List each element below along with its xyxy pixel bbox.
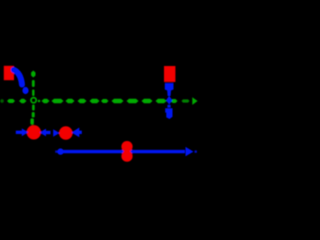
pole marker: right red square	[164, 66, 175, 82]
arrow: blue curved displacement arrow from left pole toward axis	[14, 70, 22, 85]
arrow: blue lower dash below axis	[167, 105, 170, 108]
arrow: blue lower block (shaft end)	[165, 108, 172, 119]
wire: real-axis dashed green contour	[0, 99, 190, 103]
arrow: blue down-arrow below right pole (head block tapering toward axis)	[165, 83, 174, 96]
node: axis arrowhead (right end of real axis)	[192, 97, 197, 105]
pinch group 1: right blue arrow pointing left	[45, 131, 51, 134]
pinched pole pair: red figure-eight on bottom contour	[121, 141, 132, 152]
pinch group 2: red pole blob	[59, 126, 73, 140]
wire: bottom blue contour line with right arrowhead	[57, 148, 63, 154]
pinch group 2: left blue arrow pointing right	[53, 129, 59, 137]
pinch group 2: right blue arrow pointing left	[78, 131, 82, 134]
pole marker: left red square	[4, 66, 14, 80]
pinch group 1: red pole blob	[27, 125, 41, 139]
node: blue diamond dash at right crossing	[166, 96, 172, 105]
arrowhead of blue curved arrow	[22, 87, 28, 94]
wire: left vertical dashed green line (imaginary direction at pole)	[30, 71, 35, 125]
node: open-circle marker at left crossing	[31, 98, 36, 103]
pinch group 1: left blue arrow pointing right	[16, 131, 23, 134]
